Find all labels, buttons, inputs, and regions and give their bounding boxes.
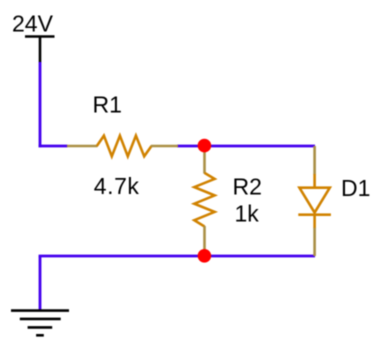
wire top left horizontal — [39, 145, 68, 148]
svg-text:R1: R1 — [93, 92, 122, 118]
ground — [11, 311, 69, 336]
junction node top — [198, 139, 212, 153]
svg-text:1k: 1k — [235, 201, 260, 227]
wire top middle horizontal — [177, 145, 315, 148]
resistor R1 — [67, 136, 178, 157]
svg-text:D1: D1 — [341, 175, 370, 201]
svg-text:24V: 24V — [12, 11, 54, 37]
wire bottom horizontal — [39, 255, 315, 258]
wire left vertical top — [39, 62, 42, 147]
resistor R2 — [194, 146, 214, 256]
svg-text:4.7k: 4.7k — [94, 173, 140, 199]
diode D1 — [298, 146, 331, 256]
voltage source terminal — [25, 37, 55, 63]
junction node bottom — [198, 249, 212, 263]
svg-text:R2: R2 — [233, 174, 262, 200]
wire left vertical bottom — [39, 256, 42, 310]
